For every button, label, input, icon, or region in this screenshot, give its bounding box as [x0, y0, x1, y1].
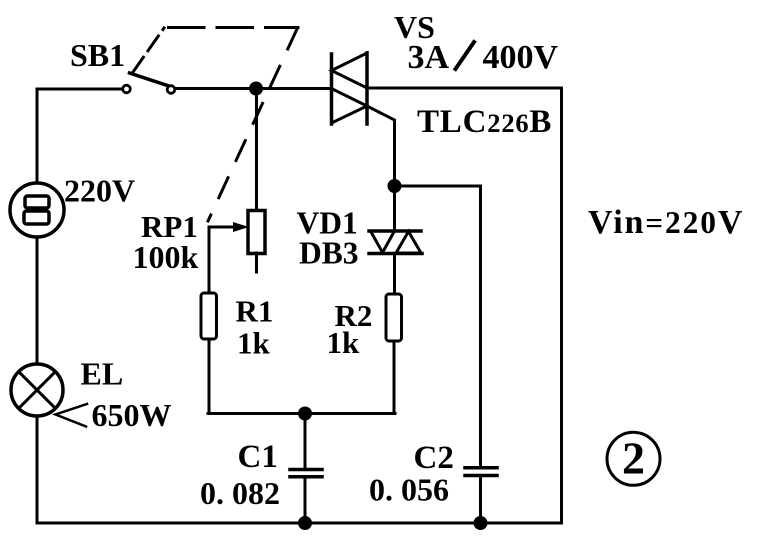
AC source lower pin rectangle	[24, 211, 49, 224]
wire wiper down to R1	[208, 227, 211, 293]
capacitor C2 top plate	[465, 466, 497, 470]
wire junction down to potentiometer	[255, 89, 258, 212]
svg-text:400V: 400V	[483, 39, 559, 76]
wire junction down to diac	[393, 186, 396, 231]
svg-text:EL: EL	[81, 356, 124, 392]
triac VS right bar	[365, 53, 369, 124]
wire top-left horizontal to switch	[37, 88, 122, 91]
switch SB1 left terminal	[123, 85, 131, 93]
svg-text:0. 082: 0. 082	[200, 475, 280, 511]
wire R2 bottom	[393, 341, 396, 414]
wire horizontal R1-R2 bottom	[208, 412, 395, 415]
svg-text:TLC226B: TLC226B	[417, 104, 552, 140]
node junction C1 bottom	[300, 518, 311, 529]
wire diac to R2	[393, 254, 396, 295]
svg-text:650W: 650W	[92, 397, 172, 433]
wire C2 branch down	[479, 186, 482, 466]
figure number circle	[607, 432, 660, 485]
wire junction down to C1	[304, 414, 307, 469]
wire main top horizontal	[175, 87, 331, 90]
node junction C2 bottom	[475, 518, 486, 529]
triac VS left bar	[330, 54, 334, 124]
svg-text:R1: R1	[236, 294, 274, 329]
AC source upper pin rectangle	[25, 196, 49, 208]
wire right rail	[560, 88, 563, 523]
node junction above C1	[300, 408, 311, 419]
wire R1 bottom	[208, 339, 211, 414]
diac VD1 bottom bar	[369, 252, 422, 256]
potentiometer RP1 body	[248, 211, 265, 254]
node junction at switch output	[251, 83, 262, 94]
lamp EL circle	[11, 364, 63, 416]
triac VS gate lead	[367, 106, 395, 186]
svg-text:DB3: DB3	[299, 236, 359, 271]
svg-text:C1: C1	[238, 439, 278, 475]
capacitor C1 bottom plate	[290, 475, 322, 479]
switch SB1 lever	[130, 73, 168, 86]
wire bottom rail	[37, 522, 562, 525]
diac VD1 top bar	[369, 229, 421, 233]
diac VD1 left triangle	[371, 231, 395, 253]
wire junction to C2 branch	[395, 185, 481, 188]
capacitor C1 top plate	[290, 468, 322, 472]
svg-text:220V: 220V	[64, 173, 135, 209]
capacitor C2 bottom plate	[465, 474, 497, 478]
dashed linkage horizontal	[169, 26, 299, 29]
potentiometer RP1 wiper line	[209, 226, 238, 229]
triac VS upper triangle	[332, 53, 368, 88]
lamp EL cross line 1	[19, 372, 56, 409]
wire left rail middle segment	[36, 237, 39, 364]
diac VD1 right triangle	[396, 232, 421, 254]
resistor R2 body	[386, 294, 402, 341]
triac VS lower triangle	[332, 89, 368, 124]
wire left rail bottom segment	[36, 416, 39, 523]
lamp EL cross line 2	[19, 372, 56, 409]
svg-text:2: 2	[622, 433, 645, 484]
svg-text:1k: 1k	[327, 325, 361, 360]
svg-text:SB1: SB1	[70, 37, 125, 73]
wire C1 to bottom rail	[304, 477, 307, 523]
wire C2 to bottom rail	[479, 476, 482, 524]
switch SB1 right terminal	[167, 86, 175, 94]
wire top-right horizontal	[368, 87, 562, 90]
dashed linkage diagonal up from lever	[133, 28, 164, 72]
dashed linkage diagonal down to potentiometer	[208, 29, 297, 221]
svg-text:Vin=220V: Vin=220V	[588, 204, 744, 241]
AC source 220V circle	[10, 183, 64, 237]
potentiometer RP1 wiper arrowhead	[233, 222, 249, 232]
label VS rating slash	[456, 42, 475, 69]
node junction diac top	[389, 181, 400, 192]
svg-text:0. 056: 0. 056	[369, 472, 449, 508]
svg-text:3A: 3A	[408, 39, 450, 76]
svg-text:100k: 100k	[133, 239, 199, 275]
resistor R1 body	[201, 293, 217, 339]
wire left rail top segment	[36, 89, 39, 183]
svg-text:1k: 1k	[237, 326, 271, 361]
lamp EL pointer mark	[56, 404, 88, 427]
potentiometer RP1 bottom stub	[255, 253, 258, 272]
